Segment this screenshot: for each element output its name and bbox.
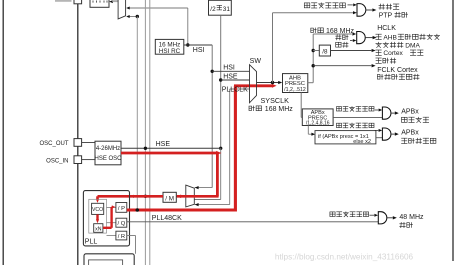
wire HSE oscillator output [121,147,221,149]
arrow red before corner [216,151,221,155]
node branch to FCLK [312,64,315,67]
box /R [116,231,127,240]
svg-text:HSI: HSI [193,47,205,54]
arrow SYSCLK into PTP gate [353,11,357,14]
wire HSI vertical [211,45,213,188]
wire HSE corner into PLL mux [195,148,221,199]
wire vertical PLLI2S right [149,0,151,265]
wire AHB output up [308,34,313,83]
wire APBx down to if-box [308,126,311,135]
wire PTP enable arrow [348,3,357,6]
wire APBx enable arrow 2 [375,129,382,132]
label peripheral clock enable (48MHz) [330,212,369,218]
node HSI branch to SW mux [211,70,214,73]
svg-text:/ R: / R [118,234,125,240]
svg-text:else x2: else x2 [353,139,371,145]
wire red HSE to PLL (horizontal) [121,152,217,155]
wire red PLLCLK up [234,86,237,212]
wire R output [127,236,136,254]
svg-text:APBx: APBx [401,130,419,137]
wire HSI feed up to RTC mux [187,8,189,45]
wire PLL48CK (Q output to 48MHz gate) [127,221,378,223]
label APBx (peripheral) [401,109,419,116]
svg-text:HCLK: HCLK [377,25,396,32]
arrow into if-box [311,133,315,136]
watermark csdn [275,253,414,262]
label HSE at oscillator [156,141,171,148]
svg-text:HSE: HSE [223,73,238,80]
wire red xN to /P [103,205,116,227]
label PLL [85,239,98,246]
wire APBx output to gate [333,116,382,118]
node HSI RC output junction [186,43,189,46]
node SYSCLK branch to PTP [271,81,274,84]
wire HCLK top run [313,33,352,35]
svg-text:/1,2,..512: /1,2,..512 [284,87,306,93]
svg-text:HSI RC: HSI RC [159,48,181,55]
svg-text:SYSCLK: SYSCLK [261,96,290,105]
wire HSI into PLL mux [195,187,213,189]
svg-text:PLLCLK: PLLCLK [222,86,248,93]
wire mux input 2 (PLLCLK up) [128,16,137,18]
svg-text:AHB: AHB [383,34,397,41]
label PLL48CK [152,215,182,222]
wire SYSCLK out of mux [257,82,279,84]
wire RTC mux output [113,1,119,3]
box gray fragment above mux [112,0,119,2]
svg-text:31: 31 [223,6,231,13]
label peripheral clock [402,117,430,123]
svg-text:/2: /2 [210,6,216,13]
wire 48MHz gate output [387,216,397,219]
svg-text:/ P: / P [118,206,125,212]
svg-text:PLL48CK: PLL48CK [152,215,182,222]
box /M divider [163,192,176,202]
wire right chip border [452,0,454,261]
wire vertical PLLCLK-to-top [136,17,138,211]
pin OSC_OUT [74,139,82,147]
box /Q [116,218,127,227]
svg-text:/8: /8 [322,48,328,55]
pin OSC_IN [74,156,82,164]
box HSE RTC divider /2到31 [209,0,232,15]
label HCLK [377,25,396,32]
wire vertical PLLI2S left [144,0,146,265]
svg-text:HSI: HSI [223,65,235,72]
svg-text:PLL: PLL [85,239,98,246]
wire red HSE down [216,154,219,197]
box RTC (cropped) [90,0,109,7]
wire 48MHz enable arrow [369,214,378,217]
wire SYSCLK up to PTP gate [273,13,354,83]
mux PLL source select [186,185,195,207]
box xN [94,224,103,233]
wire PLLCLK-branch vertical into PLL mux [230,89,250,205]
label memory and DMA [376,42,421,50]
wire HSE into SW mux [221,79,250,81]
label max 168 MHz (HCLK) [311,28,355,35]
pin OSC32 (cropped) [74,0,82,4]
svg-text:htlps://blog.csdn.net/weixin_4: htlps://blog.csdn.net/weixin_43116606 [275,253,414,262]
gate AND APBx timer [382,128,391,140]
wire HSI RC output [184,44,212,46]
box VCO [92,203,104,214]
svg-text:OSC_OUT: OSC_OUT [39,141,68,147]
wire red VCO to xN [96,214,99,223]
label ethernet [379,4,400,10]
label cropped gray text top-left [55,0,72,2]
label HSI at RC box [193,47,205,54]
svg-text:/ M: / M [165,195,174,202]
node PLLCLK junction to top vertical [136,208,140,212]
mux RTC clock (cropped trapezoid) [118,0,126,19]
wire red into /M [177,195,219,198]
wire HSI into SW mux [212,70,249,72]
label FCLK Cortex [377,67,418,74]
node HSE branch to SW mux [219,78,222,81]
node branch to /8 [312,49,315,52]
label timer (systick) [376,58,397,64]
wire PTP gate output [366,8,377,11]
wire HCLK gate output [365,36,376,39]
wire left figure border [2,0,4,265]
svg-text:4-26MHz: 4-26MHz [96,146,120,152]
svg-text:APBx: APBx [401,109,419,116]
arrow SYSCLK into AHB prescaler [278,81,282,84]
svg-text:xN: xN [95,226,102,232]
node vertical joins PLL input net [144,195,147,198]
node HSE junction to top net [144,147,147,150]
box PLL inner stage [89,199,107,233]
wire FCLK [313,64,375,67]
wire APBx enable arrow 1 [375,108,382,111]
label clock enable (HCLK) [335,35,348,48]
wire PLL mux output to /M and PLL [133,195,186,197]
box if APBx presc [315,131,376,146]
svg-text:48 MHz: 48 MHz [399,214,424,221]
arrow into RTC box [109,0,113,3]
svg-text:PTP: PTP [379,13,393,20]
node HSE junction at oscillator output [219,147,222,150]
wire if-box output [376,137,382,139]
wire chip edge vertical (through OSC pins) [77,4,79,265]
gate AND ethernet PTP [357,4,366,17]
wire OSC_OUT to HSE OSC [82,142,95,144]
label SW [250,58,262,65]
svg-text:HSE OSC: HSE OSC [94,156,122,162]
wire OSC_IN to HSE OSC [82,159,95,161]
label PLLCLK [222,86,248,93]
wire AHB down to APBx [301,93,302,118]
wire red /M to VCO column [98,195,164,198]
label PTP clock [379,12,408,20]
label 48 MHz [399,214,424,221]
svg-text:FCLK Cortex: FCLK Cortex [377,67,418,74]
wire mux input 1 (HSI up) [128,7,188,9]
svg-text:HSE: HSE [156,141,171,148]
label HSE at SW mux [223,73,238,80]
label HSI at SW mux [223,65,235,72]
svg-text:OSC_IN: OSC_IN [46,158,68,164]
arrow red into AHB prescaler [272,84,277,88]
box PLLI2S inner (cropped) [89,260,123,270]
wire APBx gate2 output [391,132,399,135]
wire red down into VCO [96,196,99,203]
wire APBx gate1 output [391,111,399,114]
svg-text:DMA: DMA [405,42,420,49]
wire VCO to P [107,206,116,208]
box APBx PRESC [302,109,333,127]
wire to /8 [313,50,319,52]
box PLL block [83,191,129,246]
box /P [116,203,127,213]
wire HSE vertical (from divider down to HSE node) [220,15,222,148]
label free running clock [377,74,419,80]
svg-text:SW: SW [250,58,262,65]
label 48MHz clock [399,222,412,228]
svg-text:168 MHz: 168 MHz [265,106,294,113]
wire VCO to Q [107,222,116,224]
wire HCLK enable arrow [350,39,356,42]
gate AND APBx peripheral [382,107,391,119]
arrow lower input into PLL mux [195,203,199,206]
gate AND HCLK [357,32,366,44]
svg-text:168 MHz: 168 MHz [326,28,355,35]
label peripheral clock enable (PTP) [304,3,345,9]
mux SW system clock select [250,65,257,103]
arrow mux input 2 [126,15,130,18]
box 16 MHz HSI RC [155,39,184,55]
box AHB PRESC [283,74,308,93]
wire VCO to R [107,235,116,237]
arrow HCLK into gate [352,32,356,35]
label OSC_IN [46,158,68,164]
arrow into PLL block [130,195,134,198]
node junction wire2/vertical PLLCLK [136,15,139,18]
arrow HSI into PLL mux [195,186,199,189]
wire /8 output [331,49,376,52]
box PLLI2S block (cropped) [84,254,134,270]
gate AND 48 MHz [378,212,387,224]
box 4-26MHz HSE OSC [94,141,122,165]
svg-text:Cortex: Cortex [383,50,403,57]
label to Cortex system [376,50,424,57]
label OSC_OUT [39,141,68,147]
arrow red into /M [177,195,181,199]
svg-text:/ Q: / Q [118,221,126,227]
box /8 divider [319,45,330,56]
arrow mux input 1 [126,6,130,9]
wire red PLLCLK to SYSCLK/AHB [234,84,272,87]
label APBx (timer) [401,130,419,137]
wire red PLLCLK from /P [127,208,236,211]
label peripheral clock enable (APBx timer) [337,123,375,128]
label to AHB bus core [376,34,441,42]
label SYSCLK max 168 MHz [249,106,293,113]
label peripheral clock enable (APBx periph) [337,106,375,111]
svg-text:VCO: VCO [92,207,103,213]
svg-text:/1,2,4,8,16: /1,2,4,8,16 [306,121,330,127]
wire lower input into PLL mux [195,204,230,206]
label SYSCLK [261,96,290,105]
label timer clock [401,138,436,144]
